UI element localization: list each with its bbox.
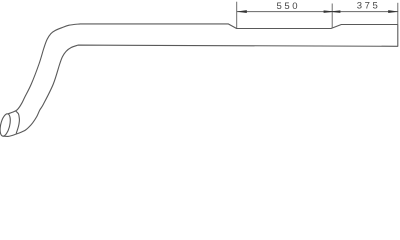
svg-text:375: 375 bbox=[357, 1, 381, 12]
svg-text:550: 550 bbox=[276, 1, 300, 12]
